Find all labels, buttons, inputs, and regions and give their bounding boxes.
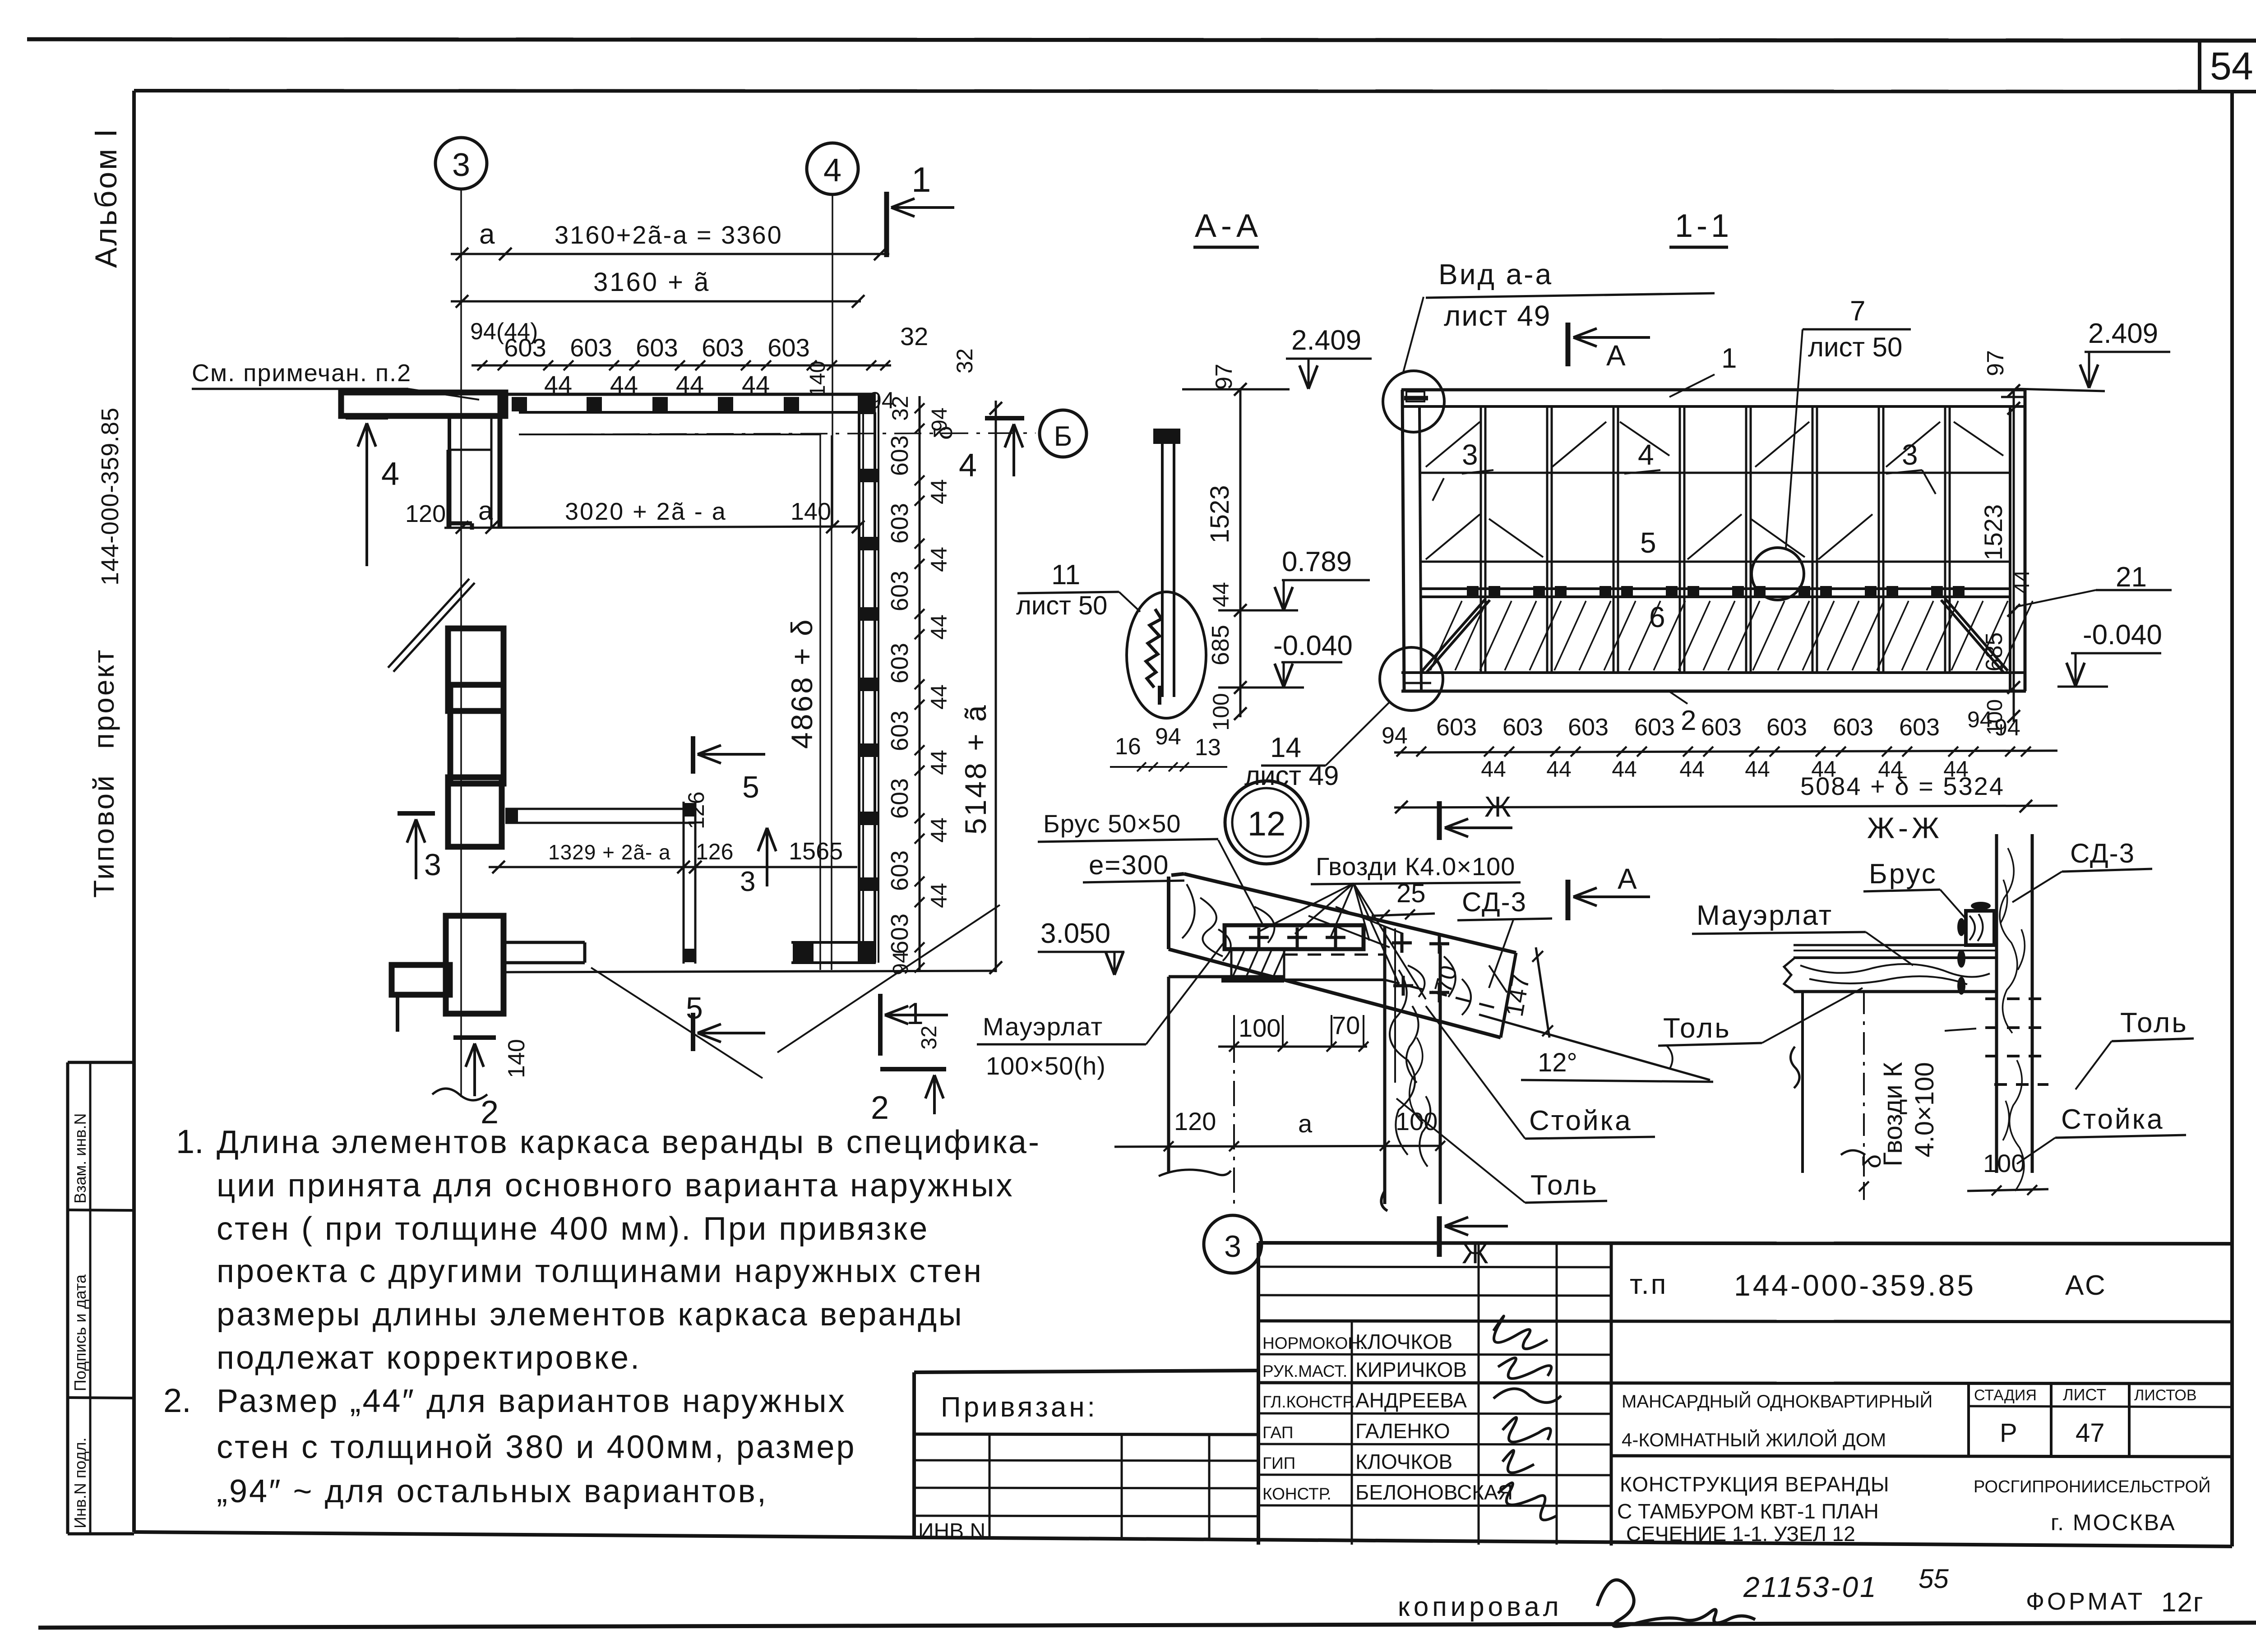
svg-text:ГЛ.КОНСТР.: ГЛ.КОНСТР. <box>1262 1393 1355 1411</box>
svg-text:21: 21 <box>2116 562 2147 593</box>
svg-text:4: 4 <box>381 456 399 492</box>
svg-text:25: 25 <box>1396 879 1426 908</box>
svg-text:КЛОЧКОВ: КЛОЧКОВ <box>1355 1330 1452 1353</box>
node12 stud <box>1383 927 1387 1204</box>
svg-text:БЕЛОНОВСКАЯ: БЕЛОНОВСКАЯ <box>1355 1481 1513 1504</box>
axis circle 3 (node12) <box>1204 1215 1262 1273</box>
svg-text:603: 603 <box>886 435 913 476</box>
svg-text:100: 100 <box>1208 693 1234 730</box>
svg-text:44: 44 <box>926 817 952 843</box>
svg-text:δ: δ <box>1858 1154 1886 1168</box>
svg-text:44: 44 <box>926 479 952 504</box>
svg-text:ГАП: ГАП <box>1262 1423 1293 1442</box>
140 dim extension verticals <box>819 435 821 970</box>
node12 support block (hatched) <box>1231 949 1284 980</box>
rafter grain <box>1182 884 1507 1015</box>
svg-text:126: 126 <box>684 792 709 829</box>
section mark 5 (lower) <box>691 1013 695 1051</box>
svg-text:ЛИСТОВ: ЛИСТОВ <box>2134 1387 2197 1404</box>
svg-text:А: А <box>1606 339 1626 372</box>
svg-text:14: 14 <box>1270 732 1301 763</box>
svg-text:2.: 2. <box>163 1382 191 1419</box>
svg-text:16: 16 <box>1115 734 1141 760</box>
node12 dashed seat line <box>1284 954 1385 956</box>
svg-text:проект: проект <box>88 648 120 749</box>
svg-text:100: 100 <box>1239 1014 1281 1042</box>
svg-text:1: 1 <box>1721 343 1737 374</box>
section mark 5 (upper) <box>691 736 695 774</box>
svg-text:32: 32 <box>952 348 977 374</box>
svg-text:-0.040: -0.040 <box>1273 630 1353 661</box>
svg-text:120: 120 <box>1174 1107 1216 1135</box>
svg-text:Толь: Толь <box>2120 1007 2188 1038</box>
section mark 4 (left) <box>346 415 388 420</box>
1-1 corner circles <box>1383 371 1444 432</box>
nails + marks <box>1249 936 1269 939</box>
svg-text:97: 97 <box>1983 350 2009 376</box>
svg-text:603: 603 <box>504 333 546 362</box>
svg-text:603: 603 <box>1634 714 1675 741</box>
ЖЖ dashed bolts <box>1985 997 2048 1000</box>
section mark Ж (upper) <box>1437 801 1442 840</box>
svg-text:100×50(h): 100×50(h) <box>986 1052 1106 1080</box>
diagonal leader right <box>777 905 1000 1052</box>
ЖЖ mauerlat beam <box>1794 956 1997 959</box>
1-1 total dim 5084+δ=5324 <box>1394 806 2057 808</box>
ЖЖ axis dash <box>1863 992 1865 1200</box>
svg-text:603: 603 <box>1436 714 1477 741</box>
svg-text:44: 44 <box>1481 757 1506 782</box>
svg-text:144-000-359.85: 144-000-359.85 <box>97 407 124 586</box>
svg-text:3: 3 <box>424 848 441 882</box>
svg-text:11: 11 <box>1051 559 1080 591</box>
svg-text:2: 2 <box>871 1090 889 1126</box>
1-1 corner caps <box>1404 396 1428 398</box>
slanted dim 147 <box>1536 947 1549 1038</box>
1-1 frame top chord <box>1401 388 2026 392</box>
svg-text:12°: 12° <box>1538 1048 1577 1077</box>
svg-text:140: 140 <box>504 1039 530 1078</box>
node12 masonry wall <box>1169 975 1284 978</box>
svg-text:лист 50: лист 50 <box>1808 332 1902 362</box>
ЖЖ tol layer line <box>1794 944 1997 946</box>
svg-text:3: 3 <box>740 866 755 897</box>
svg-text:а: а <box>479 219 495 250</box>
svg-text:АНДРЕЕВА: АНДРЕЕВА <box>1355 1389 1467 1412</box>
svg-text:СД-3: СД-3 <box>1462 887 1527 917</box>
svg-text:лист 49: лист 49 <box>1444 300 1551 332</box>
title block: names table rows <box>1258 1267 1611 1267</box>
svg-text:„94″ ~ для остальных вариантов: „94″ ~ для остальных вариантов, <box>217 1473 768 1509</box>
svg-text:140: 140 <box>806 361 830 397</box>
node12 wall break squiggle <box>1159 1170 1231 1176</box>
svg-text:603: 603 <box>1701 714 1742 741</box>
1-1 bottom dim chain 603/44 <box>1394 751 2057 752</box>
A-A bottom detail (oval balloon 11) <box>1127 592 1206 718</box>
svg-text:70: 70 <box>1332 1011 1360 1039</box>
1-1 joist blocks <box>1467 586 1479 598</box>
svg-text:РОСГИПРОНИИСЕЛЬСТРОЙ: РОСГИПРОНИИСЕЛЬСТРОЙ <box>1974 1476 2210 1496</box>
ЖЖ small squiggle bottom <box>1841 1150 1865 1155</box>
svg-text:3: 3 <box>452 147 470 183</box>
svg-text:Толь: Толь <box>1530 1170 1599 1201</box>
svg-text:3: 3 <box>1224 1229 1241 1264</box>
svg-text:5: 5 <box>1640 526 1656 559</box>
svg-text:97: 97 <box>1211 364 1237 390</box>
title block outline <box>1258 1243 2232 1244</box>
svg-text:а: а <box>478 496 493 526</box>
svg-text:100: 100 <box>1396 1107 1438 1135</box>
svg-text:4868 + δ: 4868 + δ <box>785 618 818 749</box>
svg-text:1329 + 2ã- а: 1329 + 2ã- а <box>548 840 671 864</box>
section mark 2 (bottom left) <box>453 1035 496 1040</box>
section arrow А (top) <box>1566 323 1571 366</box>
svg-text:120: 120 <box>405 500 446 527</box>
svg-text:94: 94 <box>928 407 952 431</box>
svg-text:копировал: копировал <box>1398 1592 1563 1622</box>
svg-text:603: 603 <box>636 333 678 362</box>
sheet outer top border <box>27 39 2256 41</box>
node12 rafter board <box>1184 874 1516 953</box>
svg-text:Стойка: Стойка <box>1529 1105 1632 1136</box>
privyazan table <box>914 1371 1258 1372</box>
svg-text:СЕЧЕНИЕ 1-1. УЗЕЛ 12: СЕЧЕНИЕ 1-1. УЗЕЛ 12 <box>1626 1522 1855 1546</box>
svg-text:КЛОЧКОВ: КЛОЧКОВ <box>1355 1450 1452 1473</box>
svg-text:НОРМОКОН.: НОРМОКОН. <box>1262 1334 1364 1352</box>
svg-text:44: 44 <box>926 883 952 908</box>
plan: partition (horizontal) <box>505 808 695 810</box>
svg-text:0.789: 0.789 <box>1282 546 1352 577</box>
svg-text:Привязан:: Привязан: <box>941 1392 1098 1423</box>
section mark 1 (top) <box>884 192 889 257</box>
section mark 2 (bottom right) <box>880 1067 946 1071</box>
svg-text:603: 603 <box>886 503 913 544</box>
svg-text:100: 100 <box>1983 1149 2025 1177</box>
svg-text:стен с толщиной 380 и 400мм, р: стен с толщиной 380 и 400мм, размер <box>217 1429 856 1465</box>
svg-text:Вид а-а: Вид а-а <box>1438 258 1553 291</box>
svg-text:44: 44 <box>926 547 952 572</box>
plan: right wall studs <box>860 469 878 482</box>
svg-text:Толь: Толь <box>1663 1013 1731 1044</box>
стадия лист листов box <box>1967 1383 1970 1456</box>
svg-text:603: 603 <box>570 333 612 362</box>
A-A stud strip <box>1161 432 1164 697</box>
1-1 end diagonal braces <box>1422 599 1485 671</box>
axis 3 vertical line <box>460 189 462 1097</box>
svg-text:Брус: Брус <box>1869 858 1937 890</box>
svg-text:г. МОСКВА: г. МОСКВА <box>2051 1510 2176 1535</box>
axis 4 vertical line <box>832 194 833 526</box>
svg-text:2.409: 2.409 <box>2088 318 2158 349</box>
dimension row: 603/44 chain (plan top) <box>472 365 891 367</box>
svg-text:47: 47 <box>2076 1418 2105 1448</box>
svg-text:603: 603 <box>886 778 913 819</box>
svg-text:603: 603 <box>1899 714 1940 741</box>
svg-text:ГИП: ГИП <box>1262 1454 1295 1472</box>
svg-text:Гвозди К: Гвозди К <box>1878 1062 1908 1167</box>
node12 rafter underside line through stud <box>1284 978 1385 981</box>
svg-text:94: 94 <box>1382 723 1408 749</box>
svg-text:603: 603 <box>886 643 913 683</box>
svg-text:603: 603 <box>886 571 913 611</box>
axis circle 4 (plan) <box>807 143 858 194</box>
section mark А (lower) <box>1566 880 1571 920</box>
title block: names table columns <box>1351 1321 1353 1545</box>
ЖЖ brus block <box>1966 911 1994 945</box>
svg-text:3160+2ã-а = 3360: 3160+2ã-а = 3360 <box>555 221 783 249</box>
svg-text:МАНСАРДНЫЙ ОДНОКВАРТИРНЫЙ: МАНСАРДНЫЙ ОДНОКВАРТИРНЫЙ <box>1622 1391 1932 1412</box>
svg-text:2: 2 <box>1681 705 1696 736</box>
axis B dash line <box>519 433 1036 434</box>
svg-text:ции принята для основного вари: ции принята для основного вариантa наруж… <box>217 1167 1014 1204</box>
svg-text:3020 + 2ã - а: 3020 + 2ã - а <box>565 498 727 525</box>
balloon 12 <box>1225 781 1308 864</box>
leader diagonal lower plan <box>591 968 763 1078</box>
svg-text:А: А <box>1618 863 1637 895</box>
sheet number box 54 <box>2198 41 2201 92</box>
dimension row: 3160+2a-a=3360 <box>451 253 889 255</box>
svg-text:I: I <box>88 129 123 138</box>
svg-text:603: 603 <box>1502 714 1543 741</box>
svg-text:3: 3 <box>1462 438 1478 471</box>
plan: top wall studs <box>512 397 527 411</box>
svg-text:т.п: т.п <box>1630 1269 1668 1300</box>
svg-text:АС: АС <box>2065 1270 2107 1301</box>
svg-text:32: 32 <box>888 396 913 421</box>
svg-text:3: 3 <box>1902 438 1918 471</box>
slope triangle 12deg <box>1521 1080 1713 1082</box>
svg-text:4: 4 <box>959 448 977 484</box>
svg-text:СД-3: СД-3 <box>2070 838 2135 868</box>
svg-text:4.0×100: 4.0×100 <box>1910 1062 1939 1157</box>
inner frame right <box>2230 92 2234 1546</box>
svg-text:2.409: 2.409 <box>1291 325 1361 356</box>
section mark 1 (bottom right) <box>878 994 883 1056</box>
svg-text:Мауэрлат: Мауэрлат <box>1697 900 1833 931</box>
1-1 rails <box>1421 472 2010 474</box>
svg-text:94: 94 <box>1994 715 2020 741</box>
svg-text:а: а <box>1298 1109 1313 1138</box>
Ж-Ж title <box>1867 811 1943 844</box>
svg-text:размеры длины элементов каркас: размеры длины элементов каркаса веранды <box>217 1297 964 1333</box>
svg-text:Длина элементов каркаса веранд: Длина элементов каркаса веранды в специф… <box>217 1124 1041 1160</box>
svg-text:94: 94 <box>1967 707 1992 732</box>
axis B marker <box>985 416 1024 420</box>
svg-text:4-КОМНАТНЫЙ ЖИЛОЙ ДОМ: 4-КОМНАТНЫЙ ЖИЛОЙ ДОМ <box>1622 1429 1886 1450</box>
svg-text:3160 + ã: 3160 + ã <box>593 268 710 297</box>
inner frame bottom <box>134 1532 2232 1546</box>
svg-text:21153-01: 21153-01 <box>1743 1571 1878 1603</box>
plan: middle wall piers (tambour) <box>448 628 504 711</box>
1-1 floor hatch <box>1430 601 1462 670</box>
1-1 balloon circle 7 <box>1752 548 1804 600</box>
plan: top wall band (veranda) <box>500 393 876 396</box>
svg-text:44: 44 <box>1679 757 1705 782</box>
svg-text:32: 32 <box>917 1025 941 1049</box>
svg-text:1523: 1523 <box>1979 504 2007 561</box>
svg-text:4: 4 <box>1638 438 1654 471</box>
svg-text:44: 44 <box>1745 757 1770 782</box>
left stamp column boxes <box>68 1061 134 1064</box>
svg-text:44: 44 <box>2010 570 2034 594</box>
svg-text:44: 44 <box>926 750 952 775</box>
1-1 mid-zone diagonals <box>1426 514 1480 559</box>
svg-text:Размер „44″ для вариантов нару: Размер „44″ для вариантов наружных <box>217 1383 846 1419</box>
sheet outer bottom border <box>38 1623 2256 1628</box>
svg-text:ЛИСТ: ЛИСТ <box>2063 1385 2106 1404</box>
svg-text:32: 32 <box>900 322 928 351</box>
signatures squiggles <box>1493 1316 1561 1520</box>
svg-text:Подпись и дата: Подпись и дата <box>71 1274 89 1391</box>
axis circle 3 (plan) <box>435 138 487 189</box>
section mark Ж (lower) <box>1437 1216 1442 1257</box>
svg-text:603: 603 <box>1568 714 1609 741</box>
svg-text:12г: 12г <box>2161 1587 2204 1617</box>
svg-text:4: 4 <box>823 152 841 189</box>
plan: step notch below tambour wall <box>448 415 451 450</box>
svg-text:Мауэрлат: Мауэрлат <box>983 1012 1103 1041</box>
svg-text:КОНСТР.: КОНСТР. <box>1262 1485 1331 1503</box>
svg-text:КИРИЧКОВ: КИРИЧКОВ <box>1355 1358 1467 1381</box>
svg-text:12: 12 <box>1248 805 1286 843</box>
svg-text:ФОРМАТ: ФОРМАТ <box>2026 1588 2145 1615</box>
ЖЖ stud СД-3 (vertical) <box>1995 834 1998 1173</box>
svg-text:13: 13 <box>1195 734 1221 761</box>
inner frame top <box>134 91 2256 92</box>
svg-text:54: 54 <box>2210 45 2253 88</box>
svg-text:1565: 1565 <box>789 838 843 865</box>
right outer dim line 5148+a <box>995 401 997 972</box>
svg-text:1-1: 1-1 <box>1675 208 1733 244</box>
svg-text:44: 44 <box>926 684 952 710</box>
svg-text:е=300: е=300 <box>1089 850 1170 880</box>
node12 axis line <box>1233 1038 1235 1205</box>
svg-text:Р: Р <box>2000 1418 2017 1448</box>
right dim chain of plan: 603/44 <box>919 396 921 972</box>
svg-text:Типовой: Типовой <box>88 774 120 898</box>
plan: right wall band (veranda) <box>858 394 860 963</box>
svg-text:-0.040: -0.040 <box>2083 619 2162 651</box>
svg-text:603: 603 <box>886 850 913 891</box>
plan: bottom right band <box>791 941 876 944</box>
svg-text:603: 603 <box>1833 714 1873 741</box>
svg-text:Б: Б <box>1054 421 1073 452</box>
svg-text:7: 7 <box>1850 295 1865 327</box>
svg-text:лист 50: лист 50 <box>1016 591 1107 620</box>
svg-text:3.050: 3.050 <box>1040 918 1110 949</box>
svg-text:Ж-Ж: Ж-Ж <box>1867 811 1943 844</box>
svg-text:ИНВ.N: ИНВ.N <box>918 1519 985 1543</box>
svg-text:СТАДИЯ: СТАДИЯ <box>1974 1387 2037 1404</box>
1-1 bottom chord <box>1401 671 2026 674</box>
plan: tambour top wall (thick) <box>341 392 505 416</box>
svg-text:44: 44 <box>926 614 952 640</box>
bottom dim line of plan <box>505 971 996 972</box>
1-1 short diagonal braces upper <box>1426 422 1480 467</box>
ЖЖ left wall line <box>1801 992 1804 1173</box>
svg-text:Ж: Ж <box>1484 790 1511 823</box>
svg-text:1.: 1. <box>176 1123 204 1160</box>
svg-text:1: 1 <box>911 160 931 199</box>
svg-text:5084 + δ = 5324: 5084 + δ = 5324 <box>1800 772 2005 800</box>
svg-text:С ТАМБУРОМ КВТ-1 ПЛАН: С ТАМБУРОМ КВТ-1 ПЛАН <box>1617 1500 1879 1523</box>
svg-text:5: 5 <box>742 770 759 804</box>
svg-text:подлежат корректировке.: подлежат корректировке. <box>217 1340 641 1376</box>
1-1 frame right edge <box>2009 406 2011 691</box>
right dim chain 1-1 <box>2013 389 2015 722</box>
svg-text:проектa с другими толщинами на: проектa с другими толщинами наружных сте… <box>217 1253 983 1289</box>
svg-text:603: 603 <box>886 914 913 954</box>
dimension row: 3160+a <box>451 300 861 303</box>
svg-text:1523: 1523 <box>1205 485 1234 543</box>
svg-text:Взам. инв.N: Взам. инв.N <box>71 1113 89 1204</box>
svg-text:685: 685 <box>1981 632 2007 672</box>
1-1 interior studs <box>1480 406 1482 673</box>
plan: partition (vertical) <box>683 802 685 964</box>
plan: lower pier with flange <box>446 916 504 1014</box>
svg-text:стен ( при толщине 400 мм). Пр: стен ( при толщине 400 мм). При привязке <box>217 1211 929 1247</box>
svg-text:А-А: А-А <box>1195 208 1262 244</box>
svg-text:140: 140 <box>791 498 831 525</box>
svg-text:лист 49: лист 49 <box>1244 761 1339 791</box>
svg-text:Альбом: Альбом <box>89 147 123 268</box>
svg-text:ГАЛЕНКО: ГАЛЕНКО <box>1355 1419 1450 1443</box>
svg-text:44: 44 <box>1208 582 1234 607</box>
nail leader fan <box>1259 883 1354 932</box>
plan: bottom left bar <box>503 941 585 944</box>
inner frame left <box>132 91 136 1532</box>
plan: door swing (double diagonal) <box>388 579 469 668</box>
svg-text:144-000-359.85: 144-000-359.85 <box>1734 1269 1976 1302</box>
svg-text:Стойка: Стойка <box>2061 1104 2164 1135</box>
svg-text:603: 603 <box>1766 714 1807 741</box>
plan: wavy break bottom <box>432 1089 487 1100</box>
svg-text:См. примечан. п.2: См. примечан. п.2 <box>192 360 411 387</box>
axis circle Б <box>1040 410 1086 457</box>
node12 mauerlat box <box>1225 925 1364 949</box>
svg-text:94: 94 <box>1155 724 1181 750</box>
svg-text:Инв.N подл.: Инв.N подл. <box>71 1437 89 1528</box>
svg-text:Гвозди К4.0×100: Гвозди К4.0×100 <box>1316 852 1515 881</box>
svg-text:55: 55 <box>1919 1564 1949 1594</box>
svg-text:44: 44 <box>1612 757 1637 782</box>
svg-text:44: 44 <box>1546 757 1572 782</box>
svg-text:Брус 50×50: Брус 50×50 <box>1043 809 1181 838</box>
svg-text:5148 + ã: 5148 + ã <box>959 703 992 835</box>
svg-text:5: 5 <box>686 991 703 1025</box>
svg-text:6: 6 <box>1649 601 1665 633</box>
1-1 frame left edge <box>1402 390 1404 691</box>
svg-text:РУК.МАСТ.: РУК.МАСТ. <box>1262 1362 1347 1380</box>
svg-text:603: 603 <box>767 333 809 362</box>
section mark 3 (left) <box>398 811 435 816</box>
svg-text:603: 603 <box>886 711 913 751</box>
svg-text:603: 603 <box>702 333 744 362</box>
svg-text:685: 685 <box>1207 625 1234 665</box>
svg-text:КОНСТРУКЦИЯ ВЕРАНДЫ: КОНСТРУКЦИЯ ВЕРАНДЫ <box>1620 1472 1890 1496</box>
A-A left dim chain <box>1239 388 1242 717</box>
